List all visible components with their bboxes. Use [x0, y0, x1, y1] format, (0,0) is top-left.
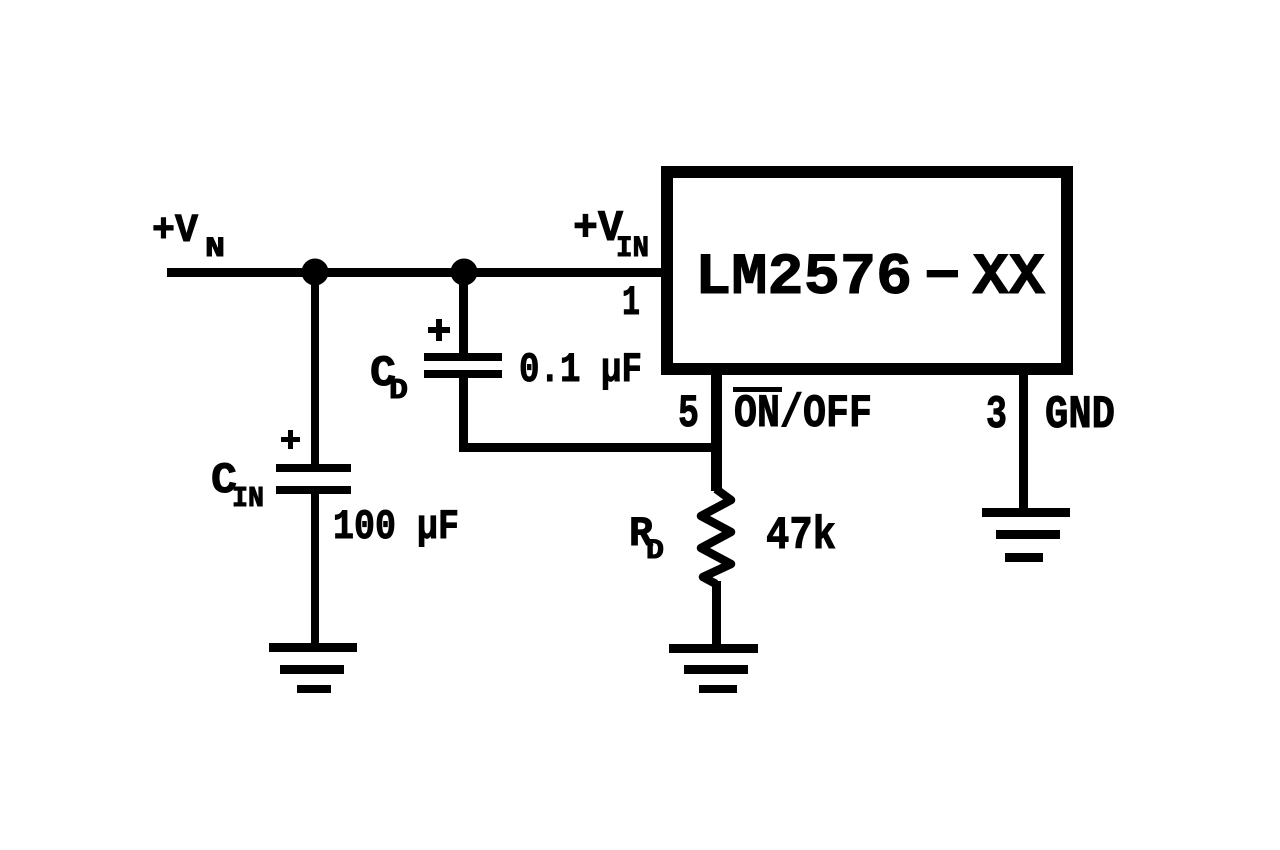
op-amp U1 LM2576-XX box — [667, 172, 1067, 369]
svg-text:IN: IN — [232, 482, 264, 515]
capacitor CD — [424, 353, 502, 378]
wire +Vin rail — [167, 268, 661, 277]
label +Vin (left) — [152, 209, 225, 265]
svg-text:47k: 47k — [766, 510, 836, 562]
label CIN — [211, 456, 264, 515]
svg-text:D: D — [389, 374, 408, 407]
wire Cin top (node A down to Cin) — [311, 272, 319, 464]
ground (pin 3) — [982, 508, 1070, 562]
node B (Cd junction) — [451, 259, 478, 286]
wire Cin bottom — [311, 494, 319, 647]
svg-text:+V: +V — [152, 209, 198, 254]
node A (Cin junction) — [302, 259, 329, 286]
ground (under CIN) — [269, 643, 357, 693]
svg-text:1: 1 — [622, 279, 640, 327]
wire pin 3 GND — [1019, 369, 1028, 512]
capacitor CIN — [276, 464, 351, 494]
svg-text:100 µF: 100 µF — [333, 503, 459, 551]
svg-text:IN: IN — [616, 232, 649, 266]
capacitor CIN plus sign — [281, 430, 300, 449]
svg-text:0.1 µF: 0.1 µF — [519, 346, 642, 394]
label ON/OFF with overline on ON — [733, 387, 872, 440]
wire pin 5 (box down to resistor) — [711, 369, 722, 491]
svg-text:GND: GND — [1045, 389, 1115, 441]
resistor RD zigzag — [701, 489, 731, 584]
label CD — [370, 349, 408, 407]
wire resistor bottom — [712, 581, 721, 648]
svg-text:N: N — [205, 234, 225, 265]
wire Cd top (node B down to Cd) — [459, 272, 468, 353]
svg-text:D: D — [646, 536, 664, 567]
label +VIN (pin 1) — [573, 204, 649, 266]
label RD — [629, 510, 664, 567]
svg-text:5: 5 — [678, 388, 699, 440]
ground (under RD) — [669, 644, 758, 693]
svg-text:3: 3 — [986, 389, 1007, 441]
wire Cd bottom (down then right to pin 5) — [459, 378, 717, 452]
svg-text:LM2576 − XX: LM2576 − XX — [695, 246, 1045, 311]
capacitor CD plus sign — [428, 319, 450, 341]
svg-text:ON/OFF: ON/OFF — [734, 388, 872, 440]
